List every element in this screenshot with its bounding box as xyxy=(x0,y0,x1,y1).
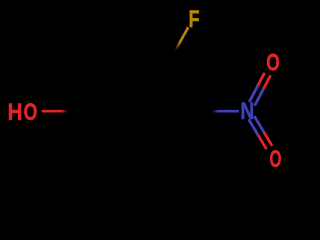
svg-text:O: O xyxy=(269,147,281,173)
svg-text:O: O xyxy=(24,100,38,126)
svg-text:H: H xyxy=(8,98,23,125)
svg-text:O: O xyxy=(266,50,279,76)
svg-text:N: N xyxy=(240,97,254,125)
svg-text:F: F xyxy=(189,6,200,32)
